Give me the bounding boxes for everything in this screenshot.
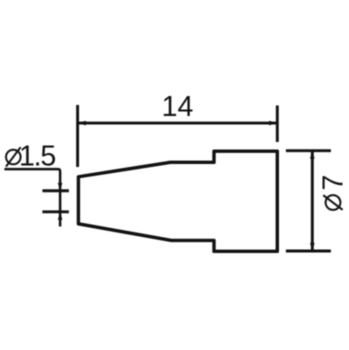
dimension 14: left extension line bbox=[76, 105, 79, 167]
dimension d7: bottom extension line bbox=[286, 250, 331, 253]
dimension d7: top arrowhead bbox=[310, 151, 315, 159]
dimension d1.5: leader line bbox=[4, 169, 60, 226]
dimension 14: dimension line bbox=[78, 122, 278, 125]
nozzle body outline bbox=[78, 151, 277, 251]
dimension 14: right extension line bbox=[276, 105, 279, 142]
svg-text:14: 14 bbox=[162, 91, 194, 123]
svg-text:7: 7 bbox=[318, 175, 349, 191]
dimension d1.5: upper tick extension bbox=[42, 189, 69, 192]
dimension d7: bottom arrowhead bbox=[310, 243, 315, 251]
dimension d7: dimension line bbox=[311, 151, 314, 251]
dimension d1.5: up arrowhead bbox=[58, 212, 63, 220]
dimension d1.5: down arrowhead bbox=[58, 183, 63, 191]
dimension 14: right arrowhead bbox=[269, 121, 277, 126]
dimension d7: top extension line bbox=[286, 149, 331, 152]
dimension 14: left arrowhead bbox=[78, 121, 86, 126]
svg-text:1.5: 1.5 bbox=[19, 141, 55, 173]
dimension d1.5: value label bbox=[6, 141, 55, 173]
dimension d1.5: lower tick extension bbox=[42, 210, 69, 213]
dimension d7: value label (rotated) bbox=[318, 175, 349, 210]
